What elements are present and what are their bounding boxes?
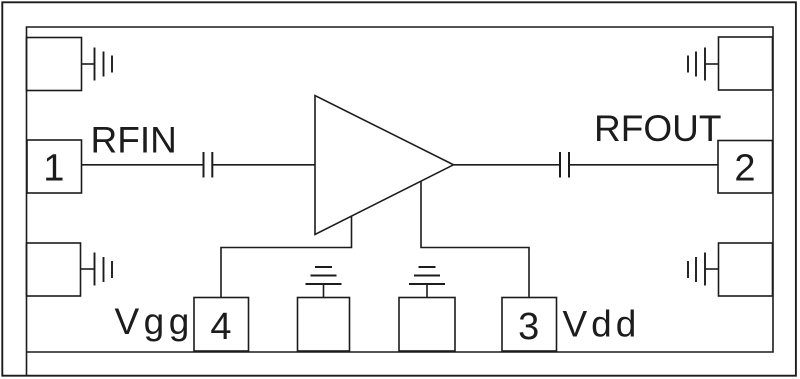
port 1 pad (RF input) xyxy=(27,140,82,193)
ground symbol (rotated) at bottom-left pad xyxy=(81,253,113,286)
svg-text:3: 3 xyxy=(518,306,539,348)
wire: input capacitor to amplifier input xyxy=(212,164,315,166)
svg-text:2: 2 xyxy=(734,148,755,190)
pad 3 (Vdd bias pad) xyxy=(502,298,557,352)
capacitor C2 (output DC block) xyxy=(560,152,569,178)
pad 4 (Vgg bias pad) xyxy=(194,298,249,352)
wire: drain bias from amplifier to pad 3 xyxy=(421,181,529,297)
svg-text:RFOUT: RFOUT xyxy=(594,108,721,149)
svg-text:Vgg: Vgg xyxy=(115,301,194,342)
bypass ground pad (right) xyxy=(399,298,455,352)
ground symbol above right bypass pad xyxy=(409,267,445,298)
ground pad P6 bottom-left xyxy=(27,243,81,296)
ground pad P5 top-left xyxy=(27,38,82,91)
capacitor C1 (input DC block) xyxy=(204,152,213,178)
ground symbol above left bypass pad xyxy=(306,267,342,298)
wire: port 1 to input DC-block capacitor xyxy=(82,164,204,166)
ground pad P7 top-right xyxy=(719,37,773,90)
ground symbol (rotated) at top-left pad xyxy=(82,48,113,81)
op-amp U1 (amplifier triangle) xyxy=(315,96,454,235)
bypass ground pad (left) xyxy=(298,298,350,352)
ground symbol (rotated) at bottom-right pad xyxy=(688,253,719,286)
svg-text:Vdd: Vdd xyxy=(563,304,641,345)
svg-text:4: 4 xyxy=(210,306,231,348)
port 2 pad (RF output) xyxy=(718,141,773,194)
wire: output capacitor to port 2 xyxy=(569,164,718,166)
wire: amplifier output to output DC-block capacitor xyxy=(454,164,561,166)
ground symbol (rotated) at top-right pad xyxy=(688,48,719,81)
ground pad P8 bottom-right xyxy=(719,243,773,296)
svg-text:RFIN: RFIN xyxy=(91,120,177,161)
svg-text:1: 1 xyxy=(43,148,64,190)
wire: gate bias from amplifier to pad 4 xyxy=(221,216,352,297)
